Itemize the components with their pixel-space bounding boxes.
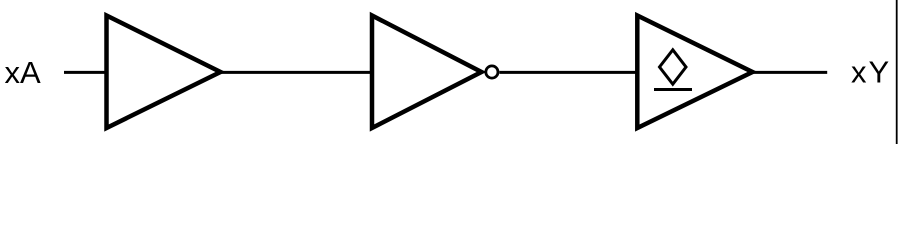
wire input to U1 bbox=[64, 71, 107, 74]
open-drain output symbol (diamond) inside U3 bbox=[660, 50, 687, 84]
frame border (right edge) bbox=[896, 0, 898, 144]
inverter U2 bbox=[372, 16, 482, 129]
wire U2 to U3 bbox=[500, 71, 638, 74]
buffer U1 bbox=[107, 16, 221, 129]
inverter U2 output bubble bbox=[486, 66, 498, 78]
wire U3 to output bbox=[751, 71, 827, 74]
open-drain symbol underline bbox=[654, 88, 692, 91]
svg-text:xA: xA bbox=[5, 55, 42, 90]
wire U1 to U2 bbox=[219, 71, 372, 74]
svg-text:xY: xY bbox=[851, 55, 891, 90]
open-drain buffer U3 bbox=[637, 16, 752, 129]
